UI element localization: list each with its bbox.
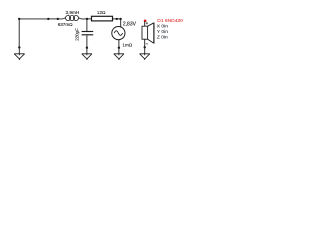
node: wire joint dot	[47, 18, 49, 20]
node: inductor left pin dot	[57, 18, 59, 20]
node: capacitor top junction dot	[86, 18, 88, 20]
node: left corner junction dot	[18, 18, 20, 20]
wire: generator bottom lead	[118, 40, 120, 48]
svg-text:D1 6ND430: D1 6ND430	[157, 18, 183, 24]
wire: left branch down to ground	[18, 19, 20, 47]
svg-text:220μF: 220μF	[75, 28, 80, 41]
node: generator top junction dot	[119, 18, 121, 20]
wire: main top wire left segment	[19, 18, 48, 20]
inductor L1 3,9mH body	[58, 16, 87, 21]
svg-text:2,83V: 2,83V	[123, 21, 137, 27]
label: plus sign at driver	[146, 22, 148, 24]
capacitor C1 plates	[82, 31, 94, 33]
svg-text:X 0in: X 0in	[157, 24, 168, 30]
label: minus sign at driver	[146, 43, 148, 45]
speaker D1 cone	[148, 23, 154, 44]
node: left ground junction dot	[18, 46, 20, 48]
node: driver plus terminal red dot	[144, 19, 147, 22]
wire: main top wire second segment	[49, 18, 59, 20]
node: resistor right pin dot	[116, 18, 118, 20]
svg-text:637mΩ: 637mΩ	[58, 22, 73, 27]
wire: driver plus lead	[144, 21, 146, 26]
generator sine wave	[114, 31, 122, 36]
ground: driver ground symbol	[140, 47, 150, 60]
svg-text:Z 0in: Z 0in	[157, 34, 168, 40]
node: capacitor ground junction dot	[86, 47, 88, 49]
generator U1 circle	[112, 26, 125, 39]
node: driver ground junction dot	[144, 46, 146, 48]
svg-text:1mΩ: 1mΩ	[122, 42, 132, 47]
node: generator ground junction dot	[118, 47, 120, 49]
svg-text:3,9mH: 3,9mH	[66, 10, 80, 15]
ground: left ground symbol	[14, 47, 24, 60]
speaker D1 body rectangle	[142, 26, 148, 39]
svg-text:12Ω: 12Ω	[97, 10, 106, 15]
svg-text:Y 0in: Y 0in	[157, 29, 168, 35]
ground: generator ground symbol	[114, 48, 124, 60]
wire: generator top lead	[120, 19, 122, 27]
wire: capacitor bottom lead	[86, 35, 88, 47]
ground: capacitor ground symbol	[82, 48, 92, 60]
wire: capacitor top lead	[86, 19, 88, 31]
wire: from resistor to generator node	[113, 18, 121, 20]
resistor R1 12 ohm box	[92, 16, 113, 21]
wire: driver minus lead	[144, 39, 146, 47]
wire: from cap node to resistor	[87, 18, 91, 20]
